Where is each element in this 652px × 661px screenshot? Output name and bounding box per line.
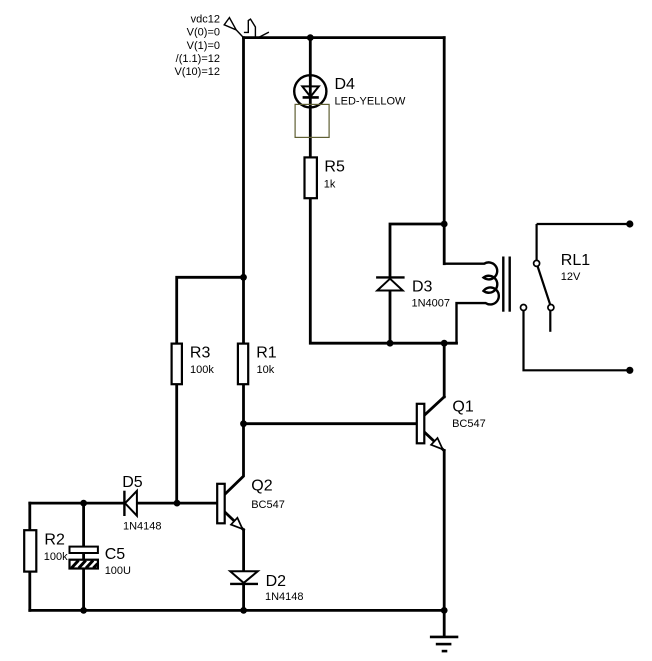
wire ground stem <box>443 610 446 636</box>
svg-text:vdc12: vdc12 <box>191 14 220 26</box>
wire R5 bottom to D3 row <box>310 198 456 343</box>
svg-text:R1: R1 <box>256 345 277 362</box>
LED D4 <box>294 75 406 107</box>
relay RL1 core <box>503 257 509 312</box>
relay RL1 coil <box>444 262 499 343</box>
wire Q1 emitter diagonal <box>425 432 444 450</box>
svg-text:R5: R5 <box>324 159 345 176</box>
annotation text vdc12 block <box>174 14 220 79</box>
terminal node top <box>626 220 633 227</box>
svg-text:V(10)=12: V(10)=12 <box>174 66 220 78</box>
wire Q1 collector vertical <box>443 343 446 397</box>
resistor R1 <box>238 344 277 385</box>
wire Q2 emitter to D2 <box>242 530 245 571</box>
svg-text:R2: R2 <box>44 531 65 548</box>
ground <box>430 637 458 651</box>
svg-text:C5: C5 <box>105 546 126 563</box>
svg-text:LED-YELLOW: LED-YELLOW <box>335 95 407 107</box>
wire Q2 emitter diagonal <box>225 512 244 530</box>
svg-text:/(1.1)=12: /(1.1)=12 <box>176 53 220 65</box>
svg-text:D2: D2 <box>266 573 287 590</box>
svg-text:BC547: BC547 <box>251 499 285 511</box>
wire R3 branch top <box>177 277 244 343</box>
wire Q1 base row <box>244 422 417 425</box>
generator marker squiggle <box>224 18 269 38</box>
transistor Q1 <box>417 398 486 449</box>
relay RL1 switch <box>521 224 630 370</box>
svg-text:100U: 100U <box>105 565 131 577</box>
wire R3 bottom to D5 node <box>175 384 178 503</box>
wire top rail <box>244 36 445 39</box>
resistor R5 <box>305 157 345 198</box>
svg-text:V(1)=0: V(1)=0 <box>187 40 220 52</box>
svg-text:R3: R3 <box>190 345 211 362</box>
wire bottom rail <box>30 609 444 612</box>
svg-text:RL1: RL1 <box>561 252 590 269</box>
svg-text:100k: 100k <box>44 551 68 563</box>
wire R1 bottom segment <box>242 384 245 424</box>
wire Q1 collector diagonal <box>425 397 445 415</box>
svg-text:1N4148: 1N4148 <box>265 591 304 603</box>
wire D5 row left <box>30 502 124 505</box>
svg-text:100k: 100k <box>190 364 214 376</box>
wire left rail R2 branch <box>28 503 31 610</box>
wire D3 anode <box>389 291 392 344</box>
LED D4 body outline <box>295 104 329 137</box>
diode D2 <box>230 571 303 603</box>
svg-text:1k: 1k <box>324 179 336 191</box>
terminal node bottom <box>626 367 633 374</box>
svg-text:D4: D4 <box>335 76 356 93</box>
svg-text:1N4148: 1N4148 <box>123 521 162 533</box>
svg-text:Q2: Q2 <box>251 478 272 495</box>
diode D3 <box>376 277 450 309</box>
wire C5 branch <box>82 503 85 610</box>
svg-text:12V: 12V <box>561 271 581 283</box>
svg-text:Q1: Q1 <box>452 398 473 415</box>
wire relay coil lead top <box>443 224 446 264</box>
wire D3 cathode up and right <box>390 224 444 277</box>
svg-text:BC547: BC547 <box>452 418 486 430</box>
svg-text:10k: 10k <box>257 364 275 376</box>
svg-text:D3: D3 <box>412 279 433 296</box>
wire right rail top <box>443 38 446 224</box>
wire R1 top segment <box>242 277 245 343</box>
wire LED branch through D4 and R5 <box>309 38 312 158</box>
capacitor C5 <box>70 546 132 577</box>
wire left rail <box>242 38 245 278</box>
transistor Q2 <box>217 478 285 530</box>
wire Q2 collector <box>225 424 244 495</box>
svg-text:D5: D5 <box>122 474 143 491</box>
svg-text:V(0)=0: V(0)=0 <box>187 27 220 39</box>
resistor R2 <box>24 530 68 571</box>
svg-text:1N4007: 1N4007 <box>412 297 451 309</box>
wire Q1 emitter to ground rail <box>443 450 446 610</box>
resistor R3 <box>172 344 215 385</box>
wire D2 cathode to bottom rail <box>242 584 245 611</box>
diode D5 <box>122 474 161 532</box>
wire D5 row right to Q2 base <box>138 502 217 505</box>
